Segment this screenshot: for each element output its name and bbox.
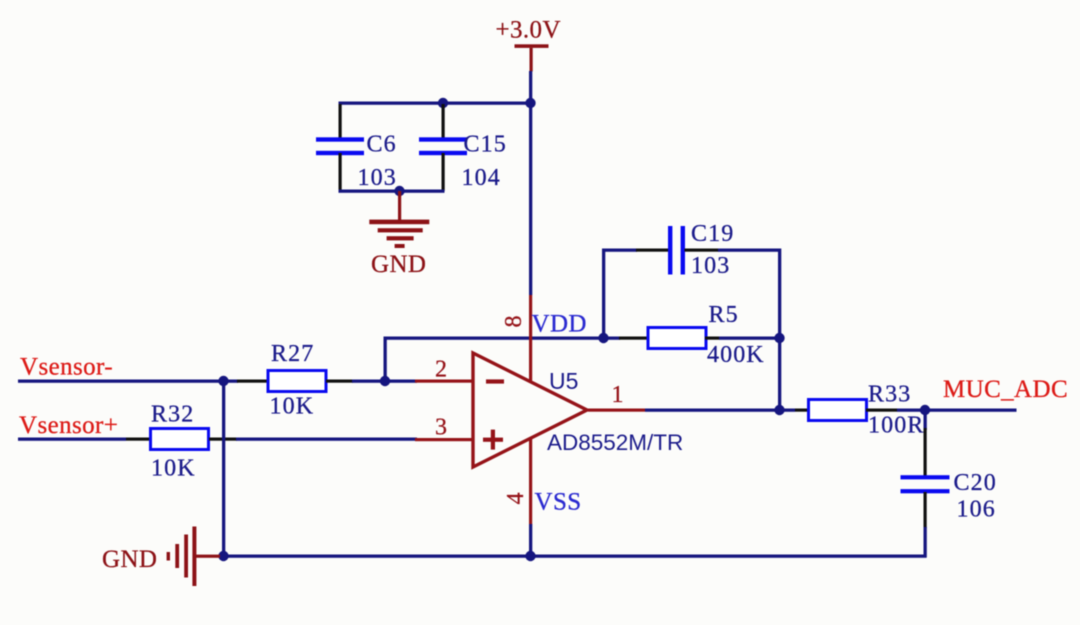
value 103 of C19	[691, 253, 730, 279]
value 100R of R33	[868, 413, 924, 439]
wire R27 to op-amp pin2 node	[352, 380, 417, 383]
lead into C20 top	[924, 428, 927, 477]
svg-text:C6: C6	[367, 132, 397, 158]
designator C19	[691, 221, 734, 247]
lead into C19 left	[636, 249, 669, 252]
op-amp minus input marker	[486, 379, 504, 383]
lead out of C20 bottom	[924, 492, 927, 528]
value 106 of C20	[957, 497, 996, 523]
lead out of R27 right	[326, 380, 353, 383]
designator R27	[271, 341, 314, 367]
pin number 4	[503, 493, 529, 505]
svg-text:103: 103	[358, 165, 397, 191]
designator R32	[151, 402, 194, 428]
svg-text:R5: R5	[709, 302, 739, 328]
wire R33 to C20 node	[897, 409, 926, 412]
op-amp U5 body	[473, 353, 587, 467]
wire R32 to op-amp pin3	[236, 438, 417, 441]
designator R33	[868, 382, 911, 408]
pin name VDD	[532, 311, 587, 338]
value 104 of C15	[462, 165, 501, 191]
node junction VSS on ground rail	[525, 551, 535, 561]
svg-text:400K: 400K	[707, 342, 765, 368]
wire feedback top horizontal	[384, 337, 621, 340]
svg-text:R27: R27	[271, 341, 314, 367]
node junction right feedback R5	[774, 333, 784, 343]
wire to MUC_ADC	[926, 409, 1017, 412]
power bar symbol +3.0V	[515, 44, 549, 71]
wire C19 right vertical down to output	[778, 249, 781, 412]
svg-text:Vsensor+: Vsensor+	[19, 412, 118, 439]
wire up from pin2 node	[384, 337, 387, 383]
svg-text:Vsensor-: Vsensor-	[20, 354, 113, 381]
lead out of R32 right	[209, 438, 237, 441]
svg-text:C20: C20	[954, 470, 997, 496]
svg-text:VSS: VSS	[535, 489, 582, 516]
node junction pin2 feedback	[380, 376, 390, 386]
pin 2 lead	[415, 380, 473, 383]
svg-text:+3.0V: +3.0V	[496, 17, 561, 44]
net label GND (top)	[371, 251, 426, 278]
value 400K of R5	[707, 342, 765, 368]
net label Vsensor-	[20, 354, 113, 381]
designator R5	[709, 302, 739, 328]
svg-text:AD8552M/TR: AD8552M/TR	[547, 430, 683, 455]
pin 3 lead	[415, 438, 473, 441]
svg-text:10K: 10K	[270, 394, 315, 420]
part number AD8552M/TR	[547, 430, 683, 455]
wire R5 to right feedback vertical	[719, 337, 781, 340]
pin name VSS	[535, 489, 582, 516]
resistor R32	[151, 429, 209, 450]
wire C20 bottom to ground rail	[924, 527, 927, 558]
lead into R27 left	[237, 380, 267, 383]
resistor R27	[268, 371, 326, 392]
wire Vsensor+ to R32	[18, 438, 126, 441]
node junction under caps	[394, 186, 404, 196]
svg-text:U5: U5	[549, 368, 578, 394]
wire ground rail bottom	[222, 555, 927, 558]
net label GND (left)	[102, 546, 157, 573]
net label MUC_ADC	[943, 376, 1068, 403]
net label Vsensor+	[19, 412, 118, 439]
lead into R32 left	[126, 438, 151, 441]
svg-text:R32: R32	[151, 402, 194, 428]
svg-text:VDD: VDD	[532, 311, 587, 338]
power net +3.0V label	[496, 17, 561, 44]
value 103 of C6	[358, 165, 397, 191]
designator C6	[367, 132, 397, 158]
pin 1 output lead	[588, 409, 645, 412]
svg-text:3: 3	[435, 415, 447, 441]
svg-text:1: 1	[612, 382, 624, 408]
value 10K of R27	[270, 394, 315, 420]
ground symbol GND left	[167, 527, 220, 587]
node junction above C15	[438, 98, 448, 108]
op-amp plus input marker	[483, 430, 503, 450]
node junction top of VDD rail	[525, 98, 535, 108]
svg-text:2: 2	[435, 357, 447, 383]
capacitor C20	[901, 475, 950, 493]
pin number 8	[501, 316, 527, 328]
svg-text:8: 8	[501, 316, 527, 328]
resistor R33	[809, 400, 867, 421]
wire C20 node down	[924, 410, 927, 430]
pin number 3	[435, 415, 447, 441]
svg-text:C15: C15	[464, 132, 507, 158]
node junction left feedback	[598, 333, 608, 343]
wire C19 row right	[718, 249, 781, 252]
lead out of R33 right	[866, 409, 897, 412]
svg-text:C19: C19	[691, 221, 734, 247]
capacitor C15	[419, 104, 467, 191]
wire Vsensor- to R27	[18, 380, 238, 383]
svg-text:GND: GND	[102, 546, 157, 573]
svg-text:MUC_ADC: MUC_ADC	[943, 376, 1068, 403]
designator C20	[954, 470, 997, 496]
wire vertical from +3.0V to VDD node	[529, 71, 532, 295]
pin 8 lead VDD	[529, 295, 532, 381]
svg-text:10K: 10K	[151, 456, 196, 482]
lead out of R5 right	[705, 337, 720, 340]
node junction Vsensor- column	[218, 376, 228, 386]
capacitor C6	[316, 104, 364, 191]
pin number 1	[612, 382, 624, 408]
svg-text:104: 104	[462, 165, 501, 191]
svg-text:106: 106	[957, 497, 996, 523]
svg-text:R33: R33	[868, 382, 911, 408]
designator C15	[464, 132, 507, 158]
pin 4 lead VSS	[529, 439, 532, 525]
wire C19 row left	[602, 249, 637, 252]
designator U5	[549, 368, 578, 394]
svg-text:GND: GND	[371, 251, 426, 278]
svg-text:103: 103	[691, 253, 730, 279]
wire bottom rail under C6 C15	[339, 190, 445, 193]
lead into R33 left	[795, 409, 807, 412]
svg-text:100R: 100R	[868, 413, 924, 439]
wire pin4 to ground rail	[529, 524, 532, 557]
pin number 2	[435, 357, 447, 383]
wire C19 left vertical	[602, 249, 605, 340]
resistor R5	[648, 328, 706, 349]
lead out of C19 right	[685, 249, 719, 252]
node junction ground rail left	[218, 551, 228, 561]
lead into R5 left	[619, 337, 647, 340]
svg-text:4: 4	[503, 493, 529, 505]
node junction MUC_ADC C20	[920, 405, 930, 415]
wire top rail over C6 C15	[339, 102, 533, 105]
wire vertical Vsensor- column down to ground rail	[222, 380, 225, 558]
capacitor C19	[668, 226, 685, 275]
value 10K of R32	[151, 456, 196, 482]
wire output to R33	[645, 409, 795, 412]
ground symbol GND top	[369, 191, 429, 248]
node junction output feedback	[774, 405, 784, 415]
